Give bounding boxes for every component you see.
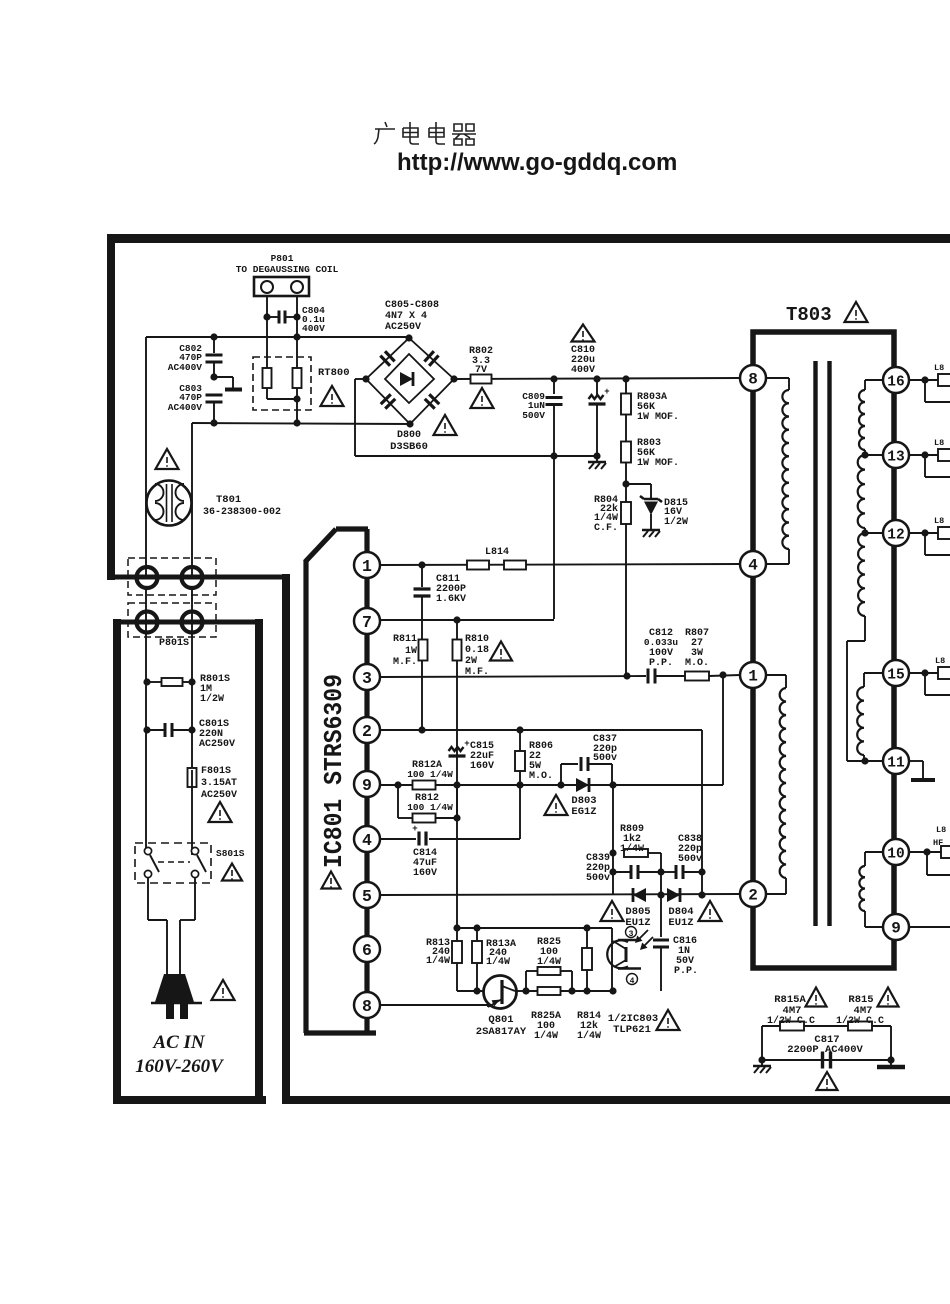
- capacitor C815 electrolytic: [449, 747, 464, 751]
- capacitor C802: [213, 337, 215, 353]
- transistor Q801: [484, 976, 517, 1009]
- T803 secondary winding pins 10-9: [865, 851, 883, 853]
- svg-text:0.033u: 0.033u: [644, 637, 679, 648]
- svg-text:4N7 X 4: 4N7 X 4: [385, 311, 427, 322]
- connector P801: [254, 277, 309, 296]
- svg-text:TLP621: TLP621: [613, 1024, 651, 1036]
- warning triangle near R810: [490, 642, 512, 661]
- svg-text:16: 16: [887, 375, 904, 391]
- wire left column to switch: [145, 730, 147, 848]
- warning triangle near D800: [434, 415, 457, 435]
- capacitor C810 electrolytic: [596, 379, 598, 396]
- svg-text:1: 1: [748, 668, 758, 686]
- svg-text:500V: 500V: [522, 410, 545, 421]
- thermistor RT800 dashed box: [253, 357, 311, 410]
- resistor R815A: [780, 1022, 804, 1031]
- wire IC pin9 row: [380, 784, 723, 786]
- wire IC pin1 to T803 pin4: [380, 564, 740, 565]
- capacitor C812: [647, 669, 650, 684]
- svg-text:100 1/4W: 100 1/4W: [407, 769, 453, 780]
- T803 pin 10: [883, 839, 909, 865]
- svg-text:HF: HF: [933, 838, 943, 848]
- svg-text:3: 3: [629, 930, 634, 939]
- warning triangle near D803: [545, 795, 568, 815]
- svg-text:1/4W: 1/4W: [534, 1030, 558, 1042]
- svg-text:M.O.: M.O.: [685, 658, 709, 669]
- warning triangle R815: [878, 988, 899, 1007]
- warning triangle below C817: [817, 1072, 838, 1090]
- P801S contact rings lower pair: [137, 612, 158, 633]
- svg-text:T803: T803: [786, 304, 832, 326]
- switch S801S blades: [150, 855, 159, 872]
- svg-text:EG1Z: EG1Z: [571, 806, 596, 818]
- wire lower rail left corner down to T801: [191, 423, 193, 578]
- svg-text:R810: R810: [465, 634, 489, 645]
- svg-text:P801S: P801S: [159, 638, 189, 649]
- warning triangle above C810: [572, 325, 595, 342]
- resistor R809: [624, 849, 648, 857]
- optocoupler IC803 phototransistor: [607, 940, 628, 968]
- svg-text:9: 9: [891, 920, 901, 938]
- svg-text:1W MOF.: 1W MOF.: [637, 458, 679, 469]
- wire T803 pin1 branch down to D803 row: [722, 675, 724, 785]
- svg-text:2200P AC400V: 2200P AC400V: [787, 1044, 863, 1056]
- wire D803 node down through R809/C839/D805 rows: [612, 785, 614, 895]
- svg-text:AC400V: AC400V: [168, 402, 203, 413]
- wire P801 left lead: [266, 296, 268, 368]
- resistor R812A: [413, 781, 436, 790]
- svg-text:160V: 160V: [470, 761, 494, 772]
- warning triangle above T801: [156, 449, 179, 469]
- resistor R801S: [143, 678, 150, 685]
- capacitor C811: [421, 565, 423, 587]
- dashed box P801S upper: [128, 558, 216, 595]
- capacitor C809: [553, 379, 555, 394]
- bridge capacitor C805 (top-left edge): [385, 351, 395, 361]
- IC801 pin 4: [354, 826, 380, 852]
- svg-text:AC400V: AC400V: [168, 362, 203, 373]
- wire winding tail to pin 11 node: [864, 616, 866, 641]
- svg-text:5: 5: [362, 887, 372, 906]
- svg-text:1/4W: 1/4W: [426, 955, 450, 967]
- IC801 pin 7: [354, 608, 380, 634]
- wire opto collector branch: [611, 928, 613, 991]
- transformer T801 symbol: [147, 481, 192, 526]
- svg-text:AC250V: AC250V: [199, 739, 235, 750]
- wire right column upper: [191, 588, 193, 682]
- svg-text:3: 3: [362, 669, 372, 688]
- svg-text:1/2W C.C: 1/2W C.C: [767, 1015, 815, 1027]
- diode D805: [633, 888, 646, 902]
- T803 pin 11: [883, 748, 909, 774]
- svg-text:P.P.: P.P.: [649, 658, 673, 669]
- svg-text:7V: 7V: [475, 365, 487, 376]
- T803 primary winding pins 1-2: [766, 674, 786, 676]
- svg-text:2W: 2W: [465, 656, 477, 667]
- svg-text:1/4W: 1/4W: [620, 843, 644, 855]
- capacitor C814 electrolytic: [417, 832, 420, 846]
- T803 pin 1: [740, 662, 766, 688]
- wire P801 right lead: [296, 296, 298, 368]
- hot-side wire through P801S upper contacts: [110, 575, 287, 580]
- svg-text:500v: 500v: [678, 854, 702, 865]
- IC801 pin 2: [354, 717, 380, 743]
- svg-text:C805-C808: C805-C808: [385, 300, 439, 311]
- warning triangle near TLP621: [657, 1010, 680, 1030]
- T803 pin 4: [740, 551, 766, 577]
- svg-text:+: +: [412, 824, 417, 834]
- svg-text:400V: 400V: [302, 323, 325, 334]
- svg-text:1/4W: 1/4W: [537, 956, 561, 968]
- svg-text:4: 4: [630, 977, 635, 986]
- bridge capacitor C808 (bottom-right edge): [425, 399, 435, 409]
- IC801 pin 8: [354, 992, 380, 1018]
- wire switch to plug left: [147, 877, 149, 920]
- opto light arrows: [637, 930, 653, 948]
- outer border top edge: [107, 234, 950, 243]
- svg-text:11: 11: [887, 756, 905, 772]
- main inner box bottom edge: [282, 1096, 950, 1104]
- resistor R812 parallel loop: [397, 785, 399, 818]
- svg-text:1/4W: 1/4W: [577, 1030, 601, 1042]
- dashed box P801S lower: [128, 603, 216, 637]
- svg-text:500v: 500v: [586, 873, 610, 884]
- svg-text:L8: L8: [934, 363, 944, 373]
- svg-text:L8: L8: [936, 825, 946, 835]
- ground left of C817: [761, 1060, 763, 1065]
- svg-text:1/2W: 1/2W: [200, 693, 224, 705]
- warning triangle left of D805 label: [601, 901, 624, 921]
- AC box left edge: [113, 619, 121, 1104]
- svg-text:+: +: [604, 387, 609, 397]
- wire R815 row: [762, 1025, 891, 1027]
- svg-text:9: 9: [362, 776, 372, 795]
- warning triangle below IC801 label: [322, 872, 341, 889]
- T803 secondary winding pins 16-13-12: [865, 379, 883, 381]
- bridge capacitor C806 (top-right edge): [424, 351, 433, 361]
- T803 pin 12: [883, 520, 909, 546]
- svg-text:400V: 400V: [571, 365, 595, 376]
- svg-text:160V-260V: 160V-260V: [135, 1056, 224, 1077]
- svg-text:C.F.: C.F.: [594, 523, 618, 534]
- capacitor C837 parallel loop: [560, 764, 562, 785]
- svg-text:2: 2: [748, 887, 758, 905]
- svg-text:1W MOF.: 1W MOF.: [637, 412, 679, 423]
- wire R809 right corner down: [660, 853, 662, 895]
- wire left AC branch down to T801: [145, 337, 147, 578]
- svg-text:500v: 500v: [593, 753, 617, 764]
- svg-text:IC801 STRS6309: IC801 STRS6309: [319, 674, 349, 868]
- svg-text:RT800: RT800: [318, 367, 350, 379]
- svg-text:15: 15: [887, 668, 904, 684]
- wire top row y=928 (pin5 branch): [457, 927, 612, 929]
- capacitor C816: [660, 895, 662, 937]
- T803 pin 2: [740, 881, 766, 907]
- svg-text:+: +: [464, 739, 469, 749]
- svg-text:D3SB60: D3SB60: [390, 441, 428, 453]
- svg-text:100 1/4W: 100 1/4W: [407, 802, 453, 813]
- zener D815: [626, 483, 651, 485]
- wire IC pin7 row: [380, 619, 554, 621]
- svg-text:L8: L8: [934, 516, 944, 526]
- T803 pin 16: [883, 367, 909, 393]
- resistor R803: [625, 414, 627, 442]
- svg-text:L8: L8: [934, 438, 944, 448]
- resistor R814: [586, 928, 588, 948]
- outer border left edge: [107, 234, 115, 580]
- capacitor C839: [630, 865, 633, 879]
- wire IC pin2 row: [380, 729, 702, 731]
- wire IC pin3 row to C812: [380, 676, 646, 677]
- wire IC pin4 row: [380, 838, 416, 840]
- wire columns to C801S: [145, 682, 147, 730]
- output stub pin13 with inductor L8xx: [909, 454, 938, 456]
- svg-text:6: 6: [362, 941, 372, 960]
- svg-text:F801S: F801S: [201, 766, 231, 777]
- opto pin number 4: [627, 974, 638, 985]
- ground stub between C802 and C803: [214, 376, 233, 378]
- svg-text:8: 8: [362, 997, 372, 1016]
- svg-text:1.6KV: 1.6KV: [436, 594, 466, 605]
- capacitor C803: [206, 394, 223, 397]
- svg-text:S801S: S801S: [216, 848, 245, 859]
- svg-text:4: 4: [362, 831, 372, 850]
- output stub pin12 with inductor L8xx: [909, 532, 938, 534]
- wire through P801S lower contacts: [113, 620, 262, 625]
- main inner box left edge: [282, 574, 290, 1104]
- switch S801S dashed box: [135, 843, 211, 883]
- AC plug body: [155, 974, 194, 1002]
- resistor R825A: [538, 987, 561, 995]
- T803 pin 15: [883, 660, 909, 686]
- resistor R811 on C811 branch: [419, 640, 428, 661]
- switch S801S link dashes: [158, 861, 190, 863]
- warning triangle below R802: [471, 388, 494, 408]
- RT800 right element: [293, 368, 302, 388]
- resistor R813: [456, 928, 458, 942]
- T803 pin 13: [883, 442, 909, 468]
- svg-text:1W: 1W: [405, 646, 417, 657]
- svg-text:0.18: 0.18: [465, 645, 489, 656]
- T803 pin 8: [740, 365, 766, 391]
- resistor R810: [456, 620, 458, 641]
- svg-text:Q801: Q801: [488, 1014, 513, 1026]
- resistor R802: [471, 375, 492, 384]
- resistor R815: [848, 1022, 872, 1031]
- resistor R806 on vertical between pin2 and pin9 rows: [519, 730, 521, 785]
- svg-text:12: 12: [887, 528, 904, 544]
- ground below C810: [596, 456, 598, 461]
- IC801 pin 5: [354, 882, 380, 908]
- svg-text:TO DEGAUSSING COIL: TO DEGAUSSING COIL: [236, 264, 339, 275]
- svg-text:4: 4: [748, 557, 758, 575]
- resistor R803A: [625, 379, 627, 394]
- bridge rectifier D800 inner diamond: [385, 354, 434, 403]
- svg-text:M.F.: M.F.: [393, 657, 417, 668]
- wire C809 branch down to IC pin7 row: [553, 456, 555, 619]
- svg-text:7: 7: [362, 613, 372, 632]
- wire base row to Q801: [457, 990, 499, 992]
- opto pin number 3: [626, 927, 637, 938]
- T803 primary winding pins 8-4: [766, 377, 789, 379]
- diode D803: [576, 778, 589, 792]
- svg-text:1: 1: [362, 557, 372, 576]
- svg-text:AC250V: AC250V: [385, 322, 421, 333]
- svg-text:T801: T801: [216, 494, 241, 506]
- svg-text:L814: L814: [485, 547, 509, 558]
- svg-text:1/4W: 1/4W: [486, 956, 510, 968]
- output stub pin15 with inductor L8xx: [909, 672, 938, 674]
- svg-text:M.O.: M.O.: [529, 771, 553, 782]
- wire top AC rail: [146, 336, 409, 338]
- output stub pin10 with inductor L8xx: [909, 851, 941, 853]
- wire R804 down to pin3 row: [625, 524, 627, 675]
- bridge rectifier D800 outer diamond: [366, 338, 454, 424]
- wire IC pin5 row to T803 pin2: [380, 894, 740, 895]
- wire pin4 row corner up to pin2 row: [519, 785, 521, 839]
- wire R803 to junction: [625, 462, 627, 484]
- switch S801S contacts: [144, 847, 151, 854]
- bridge capacitor C807 (bottom-left edge): [385, 399, 395, 409]
- output stub pin16 with inductor L8xx: [909, 379, 938, 381]
- svg-text:3.15AT: 3.15AT: [201, 778, 237, 789]
- warning triangle RT800: [321, 386, 344, 406]
- fuse F801S: [191, 730, 193, 768]
- IC801 pin 1: [354, 552, 380, 578]
- wire IC pin8 row to Q801 emitter: [380, 1004, 488, 1006]
- T803 core lines: [813, 361, 817, 926]
- header logo text 广电电器 (drawn strokes): [374, 122, 476, 145]
- capacitor C817: [821, 1052, 824, 1069]
- bridge vertex junctions: [405, 334, 412, 341]
- svg-text:P.P.: P.P.: [674, 966, 698, 977]
- T803 secondary winding pins 15-11: [864, 672, 883, 674]
- svg-text:EU1Z: EU1Z: [668, 917, 693, 929]
- warning triangle R815A: [806, 988, 827, 1007]
- pin11 ground stub: [909, 760, 923, 762]
- svg-text:http://www.go-gddq.com: http://www.go-gddq.com: [397, 149, 677, 176]
- IC801 pin 3: [354, 664, 380, 690]
- warning triangle right of D804 label: [699, 901, 722, 921]
- svg-text:R811: R811: [393, 634, 417, 645]
- pin9 output wire: [909, 926, 950, 928]
- svg-text:L8: L8: [935, 656, 945, 666]
- warning triangle near AC plug: [212, 980, 235, 1000]
- svg-text:13: 13: [887, 450, 904, 466]
- svg-text:1/2W: 1/2W: [664, 516, 688, 528]
- IC801 outline: [336, 526, 368, 531]
- svg-text:1/2W C.C: 1/2W C.C: [836, 1015, 884, 1027]
- resistor R804: [625, 484, 627, 502]
- T803 pin 9: [883, 914, 909, 940]
- AC box right edge: [255, 619, 263, 1104]
- svg-text:160V: 160V: [413, 868, 437, 879]
- resistor R825 parallel loop: [525, 971, 527, 991]
- wire C817 row: [761, 1026, 763, 1060]
- wire pin2 row corner down to D804: [701, 730, 703, 895]
- AC box bottom edge: [113, 1096, 266, 1104]
- svg-text:AC250V: AC250V: [201, 790, 237, 801]
- IC801 pin 9: [354, 771, 380, 797]
- RT800 left element: [263, 368, 272, 388]
- svg-text:2: 2: [362, 722, 372, 741]
- bridge diode symbol: [400, 372, 413, 386]
- transformer T803 box: [753, 332, 894, 968]
- svg-text:8: 8: [748, 371, 758, 389]
- inductor L814 (two beads): [467, 561, 489, 570]
- warning triangle below F801S: [209, 802, 232, 822]
- IC801 pin 6: [354, 936, 380, 962]
- wire Q801 collector row: [515, 990, 526, 992]
- ground below D815: [650, 524, 652, 529]
- P801S contact rings upper pair: [137, 567, 158, 588]
- diode D804: [667, 888, 680, 902]
- resistor R807: [685, 672, 709, 681]
- svg-text:2SA817AY: 2SA817AY: [476, 1026, 527, 1038]
- wire switch to plug right: [194, 877, 196, 920]
- svg-text:AC IN: AC IN: [152, 1032, 205, 1053]
- resistor R813A: [476, 928, 478, 941]
- capacitor C801S: [143, 726, 150, 733]
- svg-text:36-238300-002: 36-238300-002: [203, 507, 281, 518]
- svg-text:P801: P801: [271, 253, 294, 264]
- wire lower AC rail: [192, 423, 410, 424]
- wire DC+ rail to T803 pin 8: [454, 378, 740, 379]
- warning triangle T803: [845, 302, 868, 322]
- svg-text:10: 10: [887, 847, 904, 863]
- capacitor C838: [675, 865, 678, 879]
- capacitor C804: [263, 313, 270, 320]
- warning triangle below S801S label: [222, 864, 242, 881]
- svg-text:D800: D800: [397, 430, 421, 441]
- ground right of C817: [890, 1060, 892, 1066]
- wire bridge left vertex to lower DC rail: [355, 378, 366, 380]
- wire left column upper: [145, 588, 147, 682]
